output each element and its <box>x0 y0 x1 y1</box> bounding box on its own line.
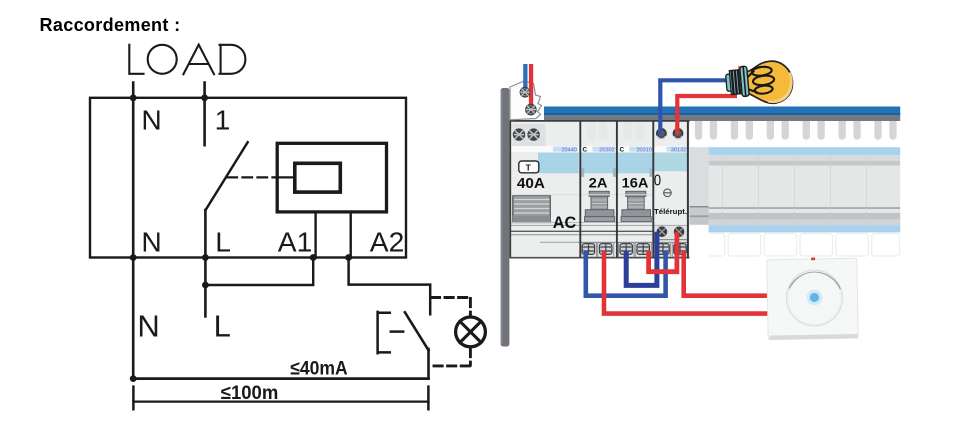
svg-text:C: C <box>620 147 625 154</box>
svg-text:L: L <box>215 225 231 257</box>
svg-text:20440: 20440 <box>561 147 577 153</box>
svg-text:AC: AC <box>553 214 577 232</box>
svg-text:A1: A1 <box>278 225 312 257</box>
svg-text:N: N <box>141 225 161 257</box>
svg-text:20302: 20302 <box>599 147 615 153</box>
svg-text:T: T <box>526 162 532 172</box>
svg-text:L: L <box>214 309 231 344</box>
svg-text:20310: 20310 <box>636 147 652 153</box>
svg-text:C: C <box>583 147 588 154</box>
svg-text:≤40mA: ≤40mA <box>290 357 348 379</box>
svg-text:16A: 16A <box>622 176 649 191</box>
svg-text:Raccordement :: Raccordement : <box>40 15 181 35</box>
svg-text:40A: 40A <box>517 175 545 192</box>
svg-text:30132: 30132 <box>671 147 687 153</box>
svg-text:1: 1 <box>215 104 231 136</box>
svg-text:N: N <box>141 104 161 136</box>
svg-text:Télérupt.: Télérupt. <box>654 207 687 216</box>
svg-text:N: N <box>137 309 159 344</box>
svg-text:0: 0 <box>654 172 662 189</box>
svg-text:2A: 2A <box>589 176 608 191</box>
svg-text:A2: A2 <box>370 225 404 257</box>
svg-text:≤100m: ≤100m <box>221 382 278 404</box>
